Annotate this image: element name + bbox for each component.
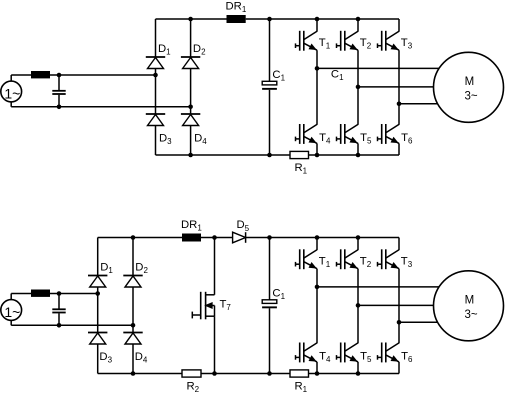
node C1 top [267, 17, 272, 22]
label T3 [401, 255, 413, 269]
node leg1 bottom [315, 371, 320, 376]
wire phase 2 [358, 304, 434, 306]
svg-text:T3: T3 [401, 37, 413, 51]
resistor R1 (bot) [290, 370, 309, 377]
motor M 3~ (bot) [434, 271, 504, 341]
svg-text:T6: T6 [401, 351, 413, 365]
wire bridge left branch [97, 238, 99, 374]
wire filter cap upper lead [58, 294, 60, 309]
wire leg2 upper [357, 19, 359, 32]
diode D1 (top) [146, 57, 165, 69]
wire bottom rail left [156, 154, 291, 156]
node leg1 bottom [315, 153, 320, 158]
wire source top right [50, 293, 98, 295]
svg-text:D2: D2 [193, 43, 206, 57]
node leg2 top [356, 235, 361, 240]
node leg2 top [356, 17, 361, 22]
igbt T5 (bot) [337, 343, 359, 363]
label T4 [319, 132, 331, 146]
node leg1 top [315, 235, 320, 240]
diode D3 (top) [146, 114, 165, 126]
node bridge left mid [95, 291, 100, 296]
node bridge right bottom [131, 371, 136, 376]
node phase 1 [315, 285, 320, 290]
wire bridge right branch [190, 19, 192, 155]
node T7 source rail [212, 371, 217, 376]
svg-text:T4: T4 [319, 132, 331, 146]
svg-text:3~: 3~ [464, 91, 477, 103]
node bridge right top [131, 235, 136, 240]
label T1 [319, 255, 331, 269]
diode D1 (bot) [88, 276, 107, 288]
wire top rail left [98, 237, 182, 239]
svg-text:T2: T2 [360, 37, 372, 51]
svg-text:3~: 3~ [464, 309, 477, 321]
node filter cap bottom [57, 323, 62, 328]
wire source bottom stub [10, 102, 12, 107]
node filter cap bottom [57, 105, 62, 110]
wire filter cap upper lead [58, 75, 60, 90]
svg-text:T1: T1 [319, 255, 331, 269]
wire filter cap lower lead [58, 95, 60, 107]
diode D3 (bot) [88, 333, 107, 345]
wire bottom rail right [309, 373, 400, 375]
svg-text:M: M [465, 295, 475, 307]
wire leg1 lower [316, 362, 318, 374]
diode D5 [233, 232, 246, 243]
igbt T1 (top) [296, 31, 318, 51]
wire leg2 lower [357, 362, 359, 374]
node bridge right top [188, 17, 193, 22]
node T7 drain rail [212, 235, 217, 240]
node filter cap top [57, 73, 62, 78]
wire C1 upper lead [269, 19, 271, 81]
node phase 2 [356, 85, 361, 90]
label T1 [319, 37, 331, 51]
ac source V (top circuit) [1, 81, 22, 102]
svg-text:T7: T7 [220, 299, 232, 313]
diode D4 (top) [181, 114, 200, 126]
svg-text:D3: D3 [159, 133, 172, 147]
node C1 bottom [267, 371, 272, 376]
label D2 [135, 262, 148, 276]
node phase 3 [397, 102, 402, 107]
svg-text:1~: 1~ [4, 86, 20, 102]
wire bottom rail left [98, 373, 182, 375]
label T5 [360, 132, 372, 146]
svg-text:T4: T4 [319, 351, 331, 365]
wire leg1 upper [316, 19, 318, 32]
diode D4 (bot) [123, 333, 142, 345]
wire top rail mid [246, 18, 270, 20]
label D4 [135, 351, 148, 365]
svg-text:T1: T1 [319, 37, 331, 51]
wire C1 lower lead [269, 308, 271, 373]
inductor Lf (top) [31, 71, 50, 78]
wire top rail inverter [270, 237, 400, 239]
label C1 [272, 69, 285, 83]
label T3 [401, 37, 413, 51]
svg-text:1~: 1~ [4, 304, 20, 320]
wire source top stub [10, 75, 12, 81]
label D2 [193, 43, 206, 57]
svg-text:T3: T3 [401, 255, 413, 269]
diode D2 (top) [181, 57, 200, 69]
node bridge right mid [188, 105, 193, 110]
wire phase 3 [399, 103, 438, 105]
igbt T3 (bot) [378, 249, 400, 269]
wire bottom rail R2 to R1 [201, 373, 290, 375]
igbt T2 (bot) [337, 249, 359, 269]
svg-text:T5: T5 [360, 132, 372, 146]
capacitor Cf (top) [52, 91, 65, 94]
igbt T6 (bot) [378, 343, 400, 363]
wire bridge right branch [132, 238, 134, 374]
inductor DR1 (bot) [182, 234, 201, 242]
wire leg3 lower [398, 143, 400, 155]
node bridge left mid [153, 73, 158, 78]
wire leg3 middle [398, 269, 400, 344]
resistor R1 (top) [290, 151, 309, 158]
node phase 3 [397, 320, 402, 325]
resistor R2 [182, 370, 201, 377]
node bridge right bottom [188, 153, 193, 158]
label T6 [401, 132, 413, 146]
wire top rail to T7 node [201, 237, 233, 239]
wire source top right [50, 74, 156, 76]
node phase 1 [315, 66, 320, 71]
label R1 [295, 162, 308, 176]
wire leg3 upper [398, 238, 400, 251]
node filter cap top [57, 291, 62, 296]
wire top rail left [156, 18, 227, 20]
wire leg3 lower [398, 362, 400, 374]
wire source top stub [10, 294, 12, 300]
igbt T5 (top) [337, 124, 359, 144]
label D3 [159, 133, 172, 147]
svg-text:D4: D4 [135, 351, 148, 365]
wire source bottom [11, 106, 190, 108]
label D5 [237, 219, 250, 233]
diode D2 (bot) [123, 276, 142, 288]
wire top rail D5 to C1 [246, 237, 270, 239]
label T5 [360, 351, 372, 365]
wire top rail inverter [270, 18, 400, 20]
wire T7 source lead [214, 316, 216, 373]
wire C1 upper lead [269, 238, 271, 300]
label T2 [360, 37, 372, 51]
label D3 [99, 351, 112, 365]
wire leg2 upper [357, 238, 359, 251]
node bridge right mid [131, 323, 136, 328]
mosfet T7 [192, 292, 214, 320]
igbt T4 (top) [296, 124, 318, 144]
wire source bottom [11, 324, 133, 326]
node leg2 bottom [356, 371, 361, 376]
wire filter cap lower lead [58, 313, 60, 325]
node phase 2 [356, 303, 361, 308]
wire phase 1 [317, 67, 439, 69]
wire leg2 middle [357, 269, 359, 344]
node leg2 bottom [356, 153, 361, 158]
svg-text:D3: D3 [99, 351, 112, 365]
label T2 [360, 255, 372, 269]
label R1 [295, 381, 308, 393]
svg-text:T5: T5 [360, 351, 372, 365]
label C1 [272, 287, 285, 301]
label T7 [220, 299, 232, 313]
label T6 [401, 351, 413, 365]
inductor DR1 (top) [227, 15, 246, 23]
igbt T1 (bot) [296, 249, 318, 269]
svg-text:DR1: DR1 [181, 219, 202, 233]
svg-text:C1: C1 [272, 69, 285, 83]
igbt T6 (top) [378, 124, 400, 144]
wire leg3 upper [398, 19, 400, 32]
igbt T4 (bot) [296, 343, 318, 363]
svg-text:C1: C1 [331, 69, 344, 83]
wire leg2 middle [357, 50, 359, 125]
wire T7 drain lead [206, 238, 215, 295]
svg-text:D5: D5 [237, 219, 250, 233]
label DR1 [181, 219, 202, 233]
wire bridge left branch [155, 19, 157, 155]
svg-text:R2: R2 [187, 381, 200, 393]
wire source top left [11, 293, 31, 295]
svg-text:D1: D1 [158, 43, 171, 57]
label T4 [319, 351, 331, 365]
igbt T2 (top) [337, 31, 359, 51]
wire leg1 lower [316, 143, 318, 155]
capacitor C1 (top) [262, 81, 277, 90]
wire phase 2 [358, 86, 434, 88]
wire bottom rail right [309, 154, 400, 156]
wire leg1 middle [316, 269, 318, 344]
label node C1 [331, 69, 344, 83]
node C1 top [267, 235, 272, 240]
label R2 [187, 381, 200, 393]
inductor Lf (bot) [31, 290, 50, 297]
capacitor C1 (bot) [262, 300, 277, 309]
node leg1 top [315, 17, 320, 22]
label DR1 [226, 1, 247, 15]
node C1 bottom [267, 153, 272, 158]
ac source V (bot circuit) [1, 300, 22, 321]
wire leg3 middle [398, 50, 400, 125]
wire phase 1 [317, 286, 439, 288]
wire phase 3 [399, 321, 438, 323]
svg-text:DR1: DR1 [226, 1, 247, 15]
svg-text:D1: D1 [100, 262, 113, 276]
svg-text:R1: R1 [295, 162, 308, 176]
svg-text:T2: T2 [360, 255, 372, 269]
svg-text:R1: R1 [295, 381, 308, 393]
wire leg1 middle [316, 50, 318, 125]
label D1 [100, 262, 113, 276]
svg-text:D2: D2 [135, 262, 148, 276]
label D1 [158, 43, 171, 57]
svg-text:D4: D4 [194, 133, 207, 147]
svg-text:T6: T6 [401, 132, 413, 146]
wire C1 lower lead [269, 90, 271, 155]
wire source top left [11, 74, 31, 76]
motor M 3~ (top) [434, 52, 504, 122]
igbt T3 (top) [378, 31, 400, 51]
wire source bottom stub [10, 321, 12, 326]
capacitor Cf (bot) [52, 309, 65, 312]
label D4 [194, 133, 207, 147]
svg-text:M: M [465, 76, 475, 88]
wire leg2 lower [357, 143, 359, 155]
svg-text:C1: C1 [272, 287, 285, 301]
wire leg1 upper [316, 238, 318, 251]
